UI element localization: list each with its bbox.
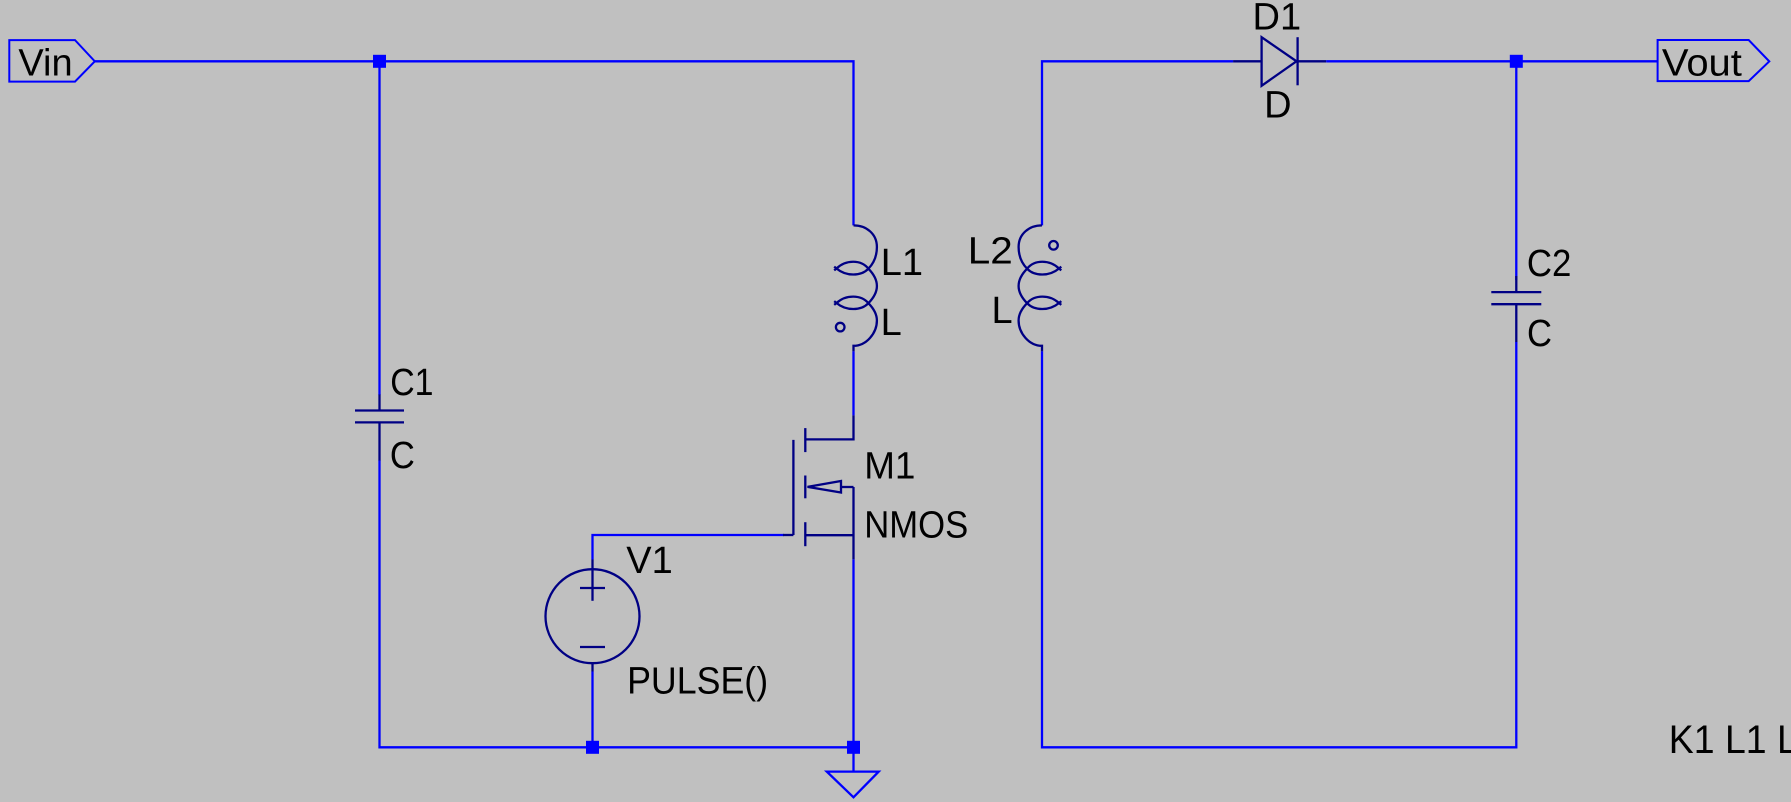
phase dot of L2: [1049, 241, 1058, 250]
svg-text:C1: C1: [390, 362, 433, 404]
inductor L1: [834, 225, 877, 351]
wire L1 to M1 drain: [852, 351, 854, 415]
junction at Vout rail: [1510, 55, 1523, 68]
svg-text:Vout: Vout: [1662, 43, 1742, 85]
wire D1 to Vout: [1326, 60, 1657, 62]
diode D1: [1233, 37, 1326, 86]
voltage source V1: [546, 560, 640, 672]
wire right branch upper: [1515, 61, 1517, 280]
svg-text:M1: M1: [864, 446, 915, 488]
wire left branch upper: [378, 61, 380, 395]
junction at V1 bottom: [586, 741, 599, 754]
svg-text:L: L: [992, 290, 1013, 332]
svg-text:L: L: [881, 302, 902, 344]
svg-text:K1 L1 L2 1: K1 L1 L2 1: [1669, 718, 1791, 762]
svg-text:D1: D1: [1253, 0, 1302, 39]
svg-text:Vin: Vin: [18, 43, 72, 85]
wire source to ground rail: [852, 559, 854, 747]
svg-text:C: C: [390, 435, 415, 477]
svg-text:PULSE(): PULSE(): [627, 661, 768, 703]
junction at Vin rail: [373, 55, 386, 68]
wire V1 bottom: [591, 672, 593, 748]
capacitor C1: [355, 395, 404, 461]
net flag Vin: [9, 40, 95, 82]
svg-text:V1: V1: [626, 540, 672, 582]
wire left branch lower and bottom-left rail: [380, 460, 854, 747]
net flag Vout: [1658, 40, 1770, 81]
junction at ground: [847, 741, 860, 754]
svg-text:NMOS: NMOS: [864, 505, 968, 547]
svg-text:D: D: [1264, 85, 1291, 127]
wire ground stub: [852, 747, 854, 771]
wire V1 top and gate: [593, 535, 785, 560]
wire top-left rail: [95, 61, 854, 225]
wire L2 bottom, bottom-right rail and right branch lower: [1042, 342, 1516, 747]
wire L2 top and top-right rail: [1042, 61, 1233, 225]
svg-text:L1: L1: [881, 242, 923, 284]
svg-text:C: C: [1527, 313, 1552, 355]
inductor L2: [1019, 225, 1062, 351]
ground symbol: [827, 772, 879, 798]
nmos transistor M1: [783, 415, 854, 559]
capacitor C2: [1491, 276, 1541, 342]
svg-text:L2: L2: [968, 231, 1013, 273]
svg-text:C2: C2: [1527, 243, 1572, 285]
